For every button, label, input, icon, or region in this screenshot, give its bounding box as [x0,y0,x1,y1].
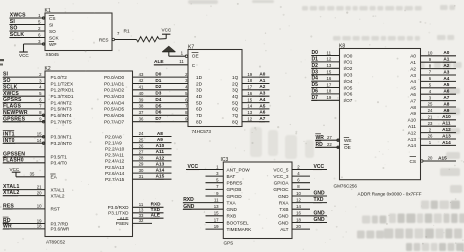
svg-text:P3.5/T1: P3.5/T1 [51,155,68,160]
wire/net A9: K8 A9 pin 24 [410,108,456,116]
GPS pin 7 GPIOB [206,184,242,192]
svg-text:A7: A7 [259,116,265,121]
svg-text:BAT: BAT [227,174,236,179]
wire/net A12: K2 P2.4 pin 28 [105,155,172,163]
svg-text:A13: A13 [156,161,165,166]
svg-text:6Q: 6Q [232,107,239,112]
svg-text:D4: D4 [155,97,161,102]
svg-text:D6: D6 [312,89,319,95]
wire/net A2: K8 A2 pin 8 [410,63,456,71]
svg-text:17: 17 [214,217,219,222]
resistor R1 [124,29,167,42]
wire/net A13: K2 P2.5 pin 29 [105,161,172,169]
GPS pin 18 GND / net GND [278,217,327,225]
IC K3 GPS receiver module body [223,162,292,239]
wire/net A1: K8 A1 pin 9 [410,57,456,65]
K1 pin 6 SCK wire / net SCLK [9,32,59,40]
svg-text:7Q: 7Q [232,113,239,118]
svg-text:WR: WR [316,135,325,141]
svg-text:A4: A4 [259,97,265,102]
svg-text:A13: A13 [442,133,451,138]
svg-text:A14: A14 [442,140,451,145]
svg-text:GND: GND [314,217,326,223]
svg-text:P0.4/AD4: P0.4/AD4 [104,100,124,105]
svg-text:20: 20 [428,156,433,161]
K1 RES output pin 7 [99,31,137,42]
svg-text:K2: K2 [45,66,51,72]
svg-text:P0.1/AD1: P0.1/AD1 [104,81,124,86]
svg-text:NEWPWR: NEWPWR [3,110,28,116]
svg-text:I/O5: I/O5 [344,85,353,90]
K8 pin 20 CS / net A15 [409,155,456,163]
svg-text:20: 20 [296,224,301,229]
wire/net A2: K7 3Q pin 17 output [232,84,269,92]
svg-text:3Q: 3Q [232,88,239,93]
GPS pin 2 VCC_5 / net VCC [273,164,327,172]
svg-text:A2: A2 [410,66,416,71]
svg-text:14: 14 [37,138,42,143]
GPS pin 15 RXB [206,211,237,219]
svg-text:22: 22 [327,142,332,147]
IC K8 GM76C256 SRAM body [340,49,421,180]
svg-text:P3.1/TXD: P3.1/TXD [108,211,129,216]
K2 pin 8 P1.6/INT4 / net NEWPWR [3,110,72,118]
svg-text:1D: 1D [196,75,203,80]
svg-text:19: 19 [327,95,332,100]
svg-text:K8: K8 [339,44,345,50]
svg-text:PSEN: PSEN [116,221,129,226]
wire/net D2: K2 P0.2 pin 41 to K7 3D pin 4 [133,84,203,92]
svg-text:A3: A3 [259,91,265,96]
svg-text:A9: A9 [410,111,416,116]
svg-text:37: 37 [139,110,144,115]
svg-text:29: 29 [139,162,144,167]
K2 pin 17 P3.5/T1 / net GPSSEN [3,151,68,159]
GPS pin 11 TXA / net RXD [183,197,237,205]
svg-text:A0: A0 [259,72,265,77]
wire/net A14: K2 P2.6 pin 30 [105,168,172,176]
GPS pin 6 GPIOA [274,178,310,186]
svg-text:A9: A9 [443,108,449,113]
svg-text:GPSRES: GPSRES [3,116,26,122]
svg-text:15: 15 [247,97,252,102]
svg-text:P1.6/INT4: P1.6/INT4 [51,113,72,118]
svg-text:P0.0/AD0: P0.0/AD0 [104,75,124,80]
svg-text:13: 13 [247,110,252,115]
svg-text:GPIOC: GPIOC [273,187,289,192]
wire/net A6: K8 A6 pin 4 [410,89,456,97]
svg-text:I/O2: I/O2 [344,66,353,71]
svg-text:D0: D0 [155,72,161,77]
svg-text:13: 13 [327,63,332,68]
K1 pin 2 SO wire / net SO [9,26,56,34]
GPS pin 19 TIMEMARK [206,224,253,232]
wire/net D6: K2 P0.6 pin 37 to K7 7D pin 8 [133,110,203,118]
svg-text:SI: SI [3,72,9,78]
svg-text:A4: A4 [410,79,416,84]
svg-text:ADDR Range 0x0000 - 0x7FFF: ADDR Range 0x0000 - 0x7FFF [358,191,422,196]
svg-text:A5: A5 [410,86,416,91]
svg-text:VCC_5: VCC_5 [273,167,289,172]
svg-text:A10: A10 [156,143,165,148]
svg-text:28: 28 [139,156,144,161]
svg-text:P1.4/INT2: P1.4/INT2 [51,100,72,105]
svg-text:A1: A1 [443,57,449,62]
svg-text:A10: A10 [442,114,451,119]
svg-text:P2.7/A15: P2.7/A15 [105,177,125,182]
svg-text:WR: WR [3,224,12,230]
svg-text:18: 18 [247,78,252,83]
svg-text:21: 21 [37,184,42,189]
svg-text:16: 16 [327,76,332,81]
wire/net D0: K2 P0.0 pin 43 to K7 1D pin 2 [133,72,203,80]
K2 pin 7 P1.5/INT3 / net FLAGS [3,104,72,112]
svg-text:A7: A7 [443,95,449,100]
svg-text:SCLK: SCLK [10,32,25,38]
svg-text:I/O7: I/O7 [344,98,353,103]
svg-text:D5: D5 [312,82,319,88]
svg-text:P2.0/A8: P2.0/A8 [105,134,122,139]
svg-text:GND: GND [278,214,289,219]
svg-text:I/O0: I/O0 [344,53,353,58]
svg-text:P3.6/WR: P3.6/WR [51,227,70,232]
GPS pin 13 GND / net GND [183,204,238,212]
K7 OE pin name [192,53,199,59]
K2 pin 4 P1.2/RXD1 / net SCLK [3,84,75,92]
svg-text:32: 32 [139,218,144,223]
svg-text:GPSRS: GPSRS [3,97,22,103]
svg-text:R1: R1 [124,29,130,35]
svg-text:A1: A1 [410,60,416,65]
K2 pin 13 P3.1/TXD / net TXD [108,207,163,215]
svg-text:A1: A1 [259,78,265,83]
svg-text:17: 17 [247,85,252,90]
svg-text:P2.6/A14: P2.6/A14 [105,171,125,176]
svg-text:A0: A0 [410,54,416,59]
wire/net A13: K8 A13 pin 26 [408,133,456,141]
wire/net A6: K7 7Q pin 13 output [232,110,269,118]
wire/net D6: K8 I/O6 pin 18 [311,89,353,97]
svg-text:K7: K7 [188,44,194,50]
svg-text:6D: 6D [196,107,203,112]
svg-text:12: 12 [296,197,301,202]
svg-text:A13: A13 [408,137,417,142]
svg-text:D4: D4 [312,76,319,82]
svg-text:16: 16 [296,211,301,216]
K2 pin 33 ALE / net ALE [120,213,164,221]
svg-text:SO: SO [10,26,18,32]
wire/net D3: K8 I/O3 pin 15 [311,69,353,77]
svg-text:P0.3/AD3: P0.3/AD3 [104,94,124,99]
wire/net D1: K8 I/O1 pin 12 [311,57,353,65]
K2 pin 19 P3.7/RD / net RD [3,217,69,226]
GPS pin 20 ALT [280,224,310,232]
svg-text:25: 25 [139,137,144,142]
GPS pin 12 RXA / net TXD [279,197,327,205]
svg-text:P1.2/RXD1: P1.2/RXD1 [51,88,75,93]
svg-text:ALT: ALT [280,227,288,232]
svg-text:A14: A14 [408,143,417,148]
wire/net A12: K8 A12 pin 2 [408,127,456,135]
svg-text:10: 10 [428,51,433,56]
svg-text:5D: 5D [196,100,203,105]
scan speck left edge [0,59,4,61]
svg-text:SI: SI [10,19,16,25]
svg-text:A12: A12 [442,127,451,132]
wire/net A9: K2 P2.1 pin 25 [105,137,172,145]
wire/net A3: K7 4Q pin 16 output [232,91,269,99]
svg-text:43: 43 [139,72,144,77]
svg-text:26: 26 [428,134,433,139]
svg-text:24: 24 [428,108,433,113]
svg-text:P2.3/A11: P2.3/A11 [105,153,124,158]
svg-text:RES: RES [3,204,14,210]
wire/net D5: K2 P0.5 pin 38 to K7 6D pin 7 [133,103,203,111]
svg-text:GND: GND [278,194,289,199]
svg-text:P1.0/T2: P1.0/T2 [51,75,68,80]
svg-text:VCC: VCC [188,164,199,170]
K2 pin 20 XTAL2 / net XTAL2 [3,190,65,198]
svg-text:D2: D2 [312,63,319,69]
svg-text:2D: 2D [196,81,203,86]
svg-text:GPIOD: GPIOD [227,194,243,199]
net label ALE wire to K7 C pin 11 [154,59,188,65]
svg-text:16: 16 [247,91,252,96]
svg-text:21: 21 [428,115,433,120]
GPS pin 10 GND / net GND [278,191,327,199]
svg-text:P2.4/A12: P2.4/A12 [105,159,125,164]
svg-text:XTAL2: XTAL2 [51,193,65,198]
svg-text:IC3: IC3 [221,157,229,163]
svg-text:7D: 7D [196,113,203,118]
K2 pin 32 PSEN stub [116,218,152,226]
svg-text:A8: A8 [410,105,416,110]
wire/net D7: K8 I/O7 pin 19 [311,95,353,103]
svg-text:D3: D3 [155,91,161,96]
wire/net D7: K2 P0.7 pin 36 to K7 8D pin 9 [133,116,203,124]
svg-text:GPS: GPS [224,241,234,246]
wire/net A10: K2 P2.2 pin 26 [105,143,172,151]
svg-text:38: 38 [139,104,144,109]
svg-text:P1.1/T2EX: P1.1/T2EX [51,81,75,86]
svg-text:A12: A12 [156,155,165,160]
svg-text:A6: A6 [410,92,416,97]
svg-text:11: 11 [327,50,332,55]
svg-text:A2: A2 [259,84,265,89]
wire/net D5: K8 I/O5 pin 17 [311,82,353,90]
svg-text:4D: 4D [196,94,203,99]
wire/net D2: K8 I/O2 pin 13 [311,63,353,71]
svg-text:TXA: TXA [227,200,237,205]
svg-text:27: 27 [139,150,144,155]
wire/net A14: K8 A14 pin 1 [408,140,456,148]
svg-text:D7: D7 [312,95,319,101]
svg-text:23: 23 [428,121,433,126]
svg-text:8Q: 8Q [232,120,239,125]
wire/net A3: K8 A3 pin 7 [410,69,456,77]
svg-text:RXB: RXB [227,214,237,219]
wire/net A4: K7 5Q pin 15 output [232,97,269,105]
wire/net A5: K7 6Q pin 14 output [232,103,269,111]
faint page bleed-through top right [302,6,308,11]
svg-text:A5: A5 [443,82,449,87]
K2 pin 14 P3.2/INT0 / net INT0 [3,137,72,146]
wire/net A11: K2 P2.3 pin 27 [105,149,172,157]
svg-text:3D: 3D [196,88,203,93]
wire/net D4: K8 I/O4 pin 16 [311,76,353,84]
svg-text:GND: GND [314,210,326,216]
IC K1 X5045 watchdog/EEPROM body [45,13,112,51]
wire/net A10: K8 A10 pin 21 [408,114,456,122]
svg-text:GND: GND [227,207,238,212]
svg-text:AT89C52: AT89C52 [46,240,66,245]
svg-text:24: 24 [139,131,144,136]
svg-text:P0.6/AD6: P0.6/AD6 [104,113,124,118]
faint bleed-through bottom right block [357,201,464,252]
svg-text:I/O1: I/O1 [344,60,353,65]
K2 pin 6 P1.4/INT2 / net GPSRS [3,97,72,105]
svg-text:P2.1/A9: P2.1/A9 [105,140,122,145]
svg-text:26: 26 [139,143,144,148]
svg-text:11: 11 [139,202,144,207]
svg-text:41: 41 [139,85,144,90]
wire/net D4: K2 P0.4 pin 39 to K7 5D pin 6 [133,97,203,105]
svg-text:15: 15 [37,132,42,137]
svg-text:15: 15 [214,211,219,216]
svg-text:P1.3/TXD1: P1.3/TXD1 [51,94,74,99]
svg-text:4Q: 4Q [232,94,239,99]
K1 pin 1 CS wire / net XWCS [9,13,55,21]
svg-text:K1: K1 [45,8,51,14]
svg-text:A11: A11 [156,149,165,154]
wire/net A7: K7 8Q pin 12 output [232,116,269,124]
K2 pin 10 RST / net RES [3,204,60,212]
svg-text:BOOTSEL: BOOTSEL [227,220,250,225]
svg-text:5Q: 5Q [232,100,239,105]
svg-text:10: 10 [296,191,301,196]
svg-text:42: 42 [139,78,144,83]
svg-text:13: 13 [139,208,144,213]
svg-text:GPIOA: GPIOA [274,181,290,186]
svg-text:A5: A5 [259,103,265,108]
GPS pin 17 BOOTSEL [206,217,250,225]
svg-text:19: 19 [247,72,252,77]
svg-text:27: 27 [327,135,332,140]
GPS pin 5 PBRES [206,178,243,186]
VCC symbol below K1 WP pin [19,44,29,58]
faint bleed-through right margin [446,88,460,94]
svg-text:I/O4: I/O4 [344,79,353,84]
svg-text:12: 12 [247,116,252,121]
svg-text:OE: OE [344,145,351,150]
K2 pin 3 P1.1/T2EX / net SO [3,78,74,86]
GPS pin 3 BAT [206,171,236,179]
GPS pin 9 GPIOD [206,191,243,199]
svg-text:A4: A4 [443,76,449,81]
svg-text:I/O6: I/O6 [344,92,353,97]
svg-text:A12: A12 [408,130,417,135]
svg-text:TXD: TXD [314,197,324,203]
wire/net D0: K8 I/O0 pin 11 [311,50,353,58]
svg-text:A3: A3 [410,73,416,78]
svg-text:P2.5/A13: P2.5/A13 [105,165,125,170]
faint bleed-through center (between K7 and K8) [250,127,314,159]
GPS pin 1 ANT_POW / net VCC [186,164,250,172]
K1 pin 3 WP wire / net VCC [24,39,57,47]
svg-text:WE: WE [344,138,352,143]
svg-text:10: 10 [37,204,42,209]
wire/net A5: K8 A5 pin 5 [410,82,456,90]
svg-text:A0: A0 [443,50,449,55]
svg-text:VCC: VCC [10,167,20,172]
wire/net A7: K8 A7 pin 3 [410,95,456,103]
wire/net A0: K8 A0 pin 10 [410,50,456,58]
svg-text:A8: A8 [157,131,163,136]
svg-text:GND: GND [183,204,195,210]
svg-text:SI: SI [49,22,53,27]
svg-text:15: 15 [327,70,332,75]
K2 pin 2 P1.0/T2 / net SI [3,72,68,80]
svg-text:FLASH0: FLASH0 [3,157,24,163]
svg-text:TIMEMARK: TIMEMARK [227,227,253,232]
GPS pin 16 GND / net GND [278,210,327,218]
svg-text:11: 11 [214,197,219,202]
svg-text:WP: WP [49,42,57,47]
wire/net A1: K7 2Q pin 18 output [232,78,269,86]
wire/net A4: K8 A4 pin 6 [410,76,456,84]
svg-text:14: 14 [296,204,301,209]
svg-text:CS: CS [49,16,56,21]
svg-text:RXA: RXA [279,200,290,205]
svg-text:RES: RES [99,37,109,42]
svg-text:XTAL1: XTAL1 [51,187,65,192]
wire/net A8: K2 P2.0 pin 24 [105,131,172,139]
K2 pin 15 P3.3/INT1 / net INT1 [3,130,72,139]
svg-text:D0: D0 [312,50,319,56]
svg-text:XTAL2: XTAL2 [3,190,20,196]
svg-text:GPIOB: GPIOB [227,187,242,192]
K2 pin 16 P3.4/T0 / net FLASH0 [3,157,68,165]
svg-text:19: 19 [37,218,42,223]
svg-text:30: 30 [139,168,144,173]
svg-text:36: 36 [139,116,144,121]
GPS pin 14 TXB [279,204,310,212]
svg-text:RD: RD [316,142,324,148]
svg-text:A9: A9 [157,137,163,142]
GPS pin 4 VCC_3 [273,171,310,179]
K2 pin 9 P1.7/INT5 / net GPSRES [3,116,72,124]
wire/net D1: K2 P0.1 pin 42 to K7 2D pin 3 [133,78,203,86]
svg-text:P2.2/A10: P2.2/A10 [105,147,125,152]
svg-text:A2: A2 [443,63,449,68]
svg-text:19: 19 [214,224,219,229]
svg-text:A3: A3 [443,69,449,74]
svg-text:ALE: ALE [151,213,160,218]
faint bleed-through top center [188,0,218,4]
svg-text:D1: D1 [312,57,319,63]
svg-text:P0.7/AD7: P0.7/AD7 [104,120,124,125]
VCC symbol to K2 EA pin 35 [10,167,58,180]
svg-text:D3: D3 [312,69,319,75]
wire/net A0: K7 1Q pin 19 output [232,72,269,80]
wire/net A15: K2 P2.7 pin 31 [105,174,172,182]
svg-text:D1: D1 [155,78,161,83]
svg-text:A11: A11 [408,124,416,129]
svg-text:D7: D7 [155,116,161,121]
svg-text:X5045: X5045 [46,52,60,57]
svg-text:P3.3/INT1: P3.3/INT1 [51,135,72,140]
svg-text:GM76C256: GM76C256 [334,184,358,189]
